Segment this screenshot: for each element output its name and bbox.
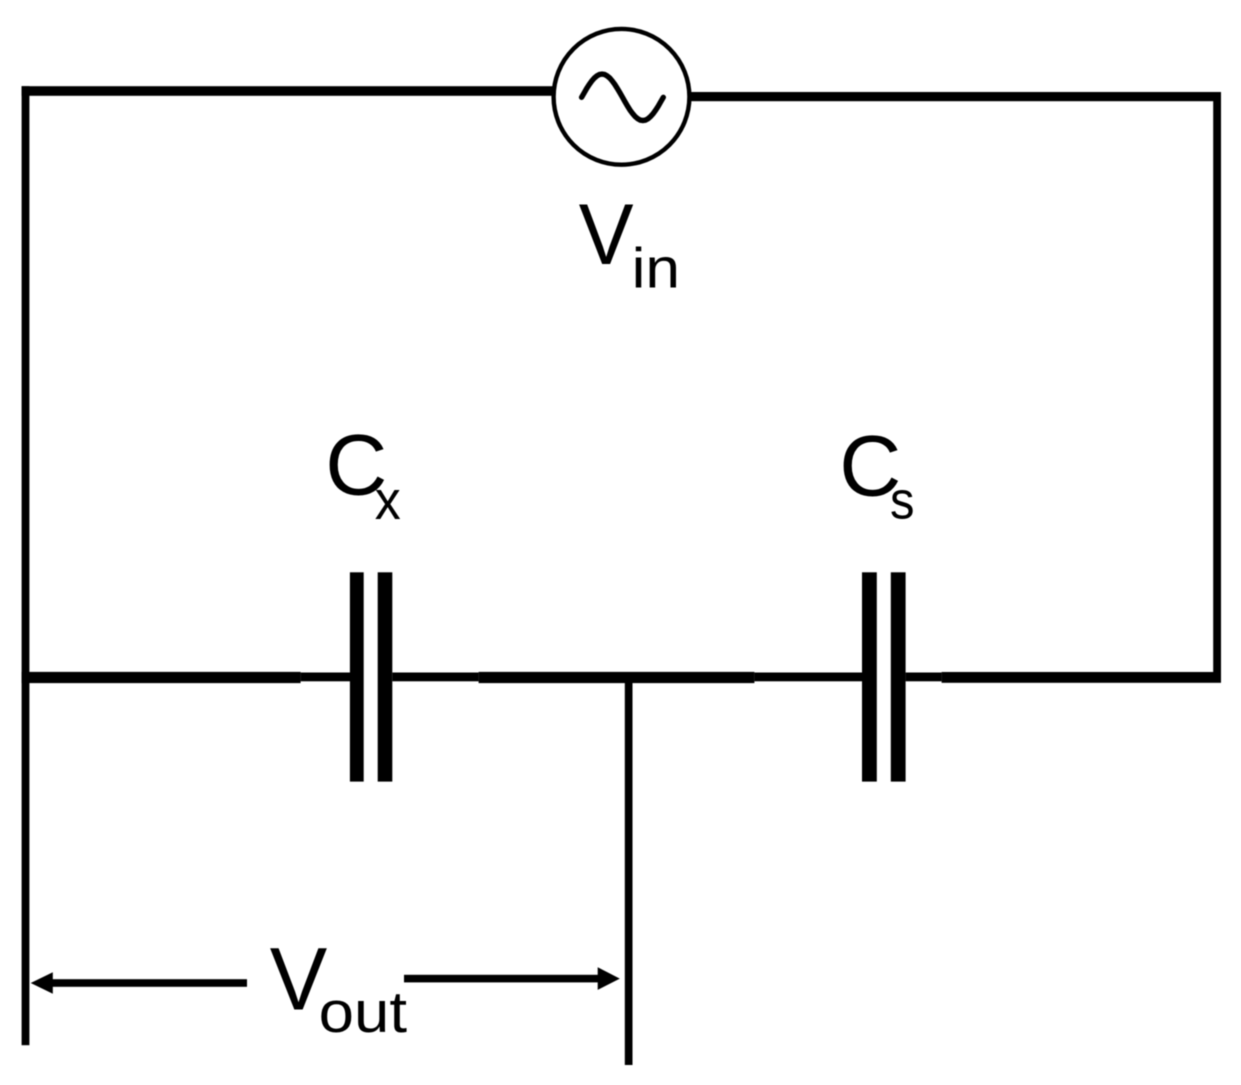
label C_x <box>325 418 401 531</box>
arrow: V_out left (pointing left at left wire) <box>31 972 247 994</box>
svg-text:s: s <box>890 472 915 531</box>
wire: top-left horizontal (corner to AC source) <box>22 86 554 96</box>
wire: C_x right lead (thin) <box>392 673 478 682</box>
svg-text:out: out <box>319 980 407 1045</box>
arrow: V_out right (pointing right at junction wire) <box>404 967 620 990</box>
capacitor C_s plate 2 <box>891 572 906 781</box>
AC source V_in: circle <box>554 29 690 165</box>
wire: right vertical (top-right corner down to bottom bus) <box>1213 92 1221 683</box>
svg-text:x: x <box>375 469 401 531</box>
capacitor C_x plate 1 <box>350 572 364 781</box>
wire: output junction vertical (node between C_x and C_s down) <box>625 682 633 1065</box>
svg-text:V: V <box>579 187 634 283</box>
wire: bottom bus thick segment middle <box>479 672 755 683</box>
wire: left vertical (top-left corner down to bottom) <box>22 86 30 1045</box>
label V_in <box>579 187 680 301</box>
wire: C_s right lead (thin) <box>906 673 942 682</box>
wire: C_x left lead (thin) <box>301 673 351 682</box>
label C_s <box>839 419 914 531</box>
wire: C_s left lead (thin) <box>754 673 862 682</box>
wire: top-right horizontal (AC source to right corner) <box>689 92 1221 101</box>
wire: bottom bus thick segment right <box>942 672 1221 683</box>
capacitor C_s plate 1 <box>862 572 877 781</box>
wire: bottom bus thick segment left <box>22 672 301 683</box>
svg-text:in: in <box>632 237 681 301</box>
AC source V_in: sine symbol <box>582 74 664 120</box>
capacitor C_x plate 2 <box>378 572 393 781</box>
label V_out <box>270 928 407 1045</box>
